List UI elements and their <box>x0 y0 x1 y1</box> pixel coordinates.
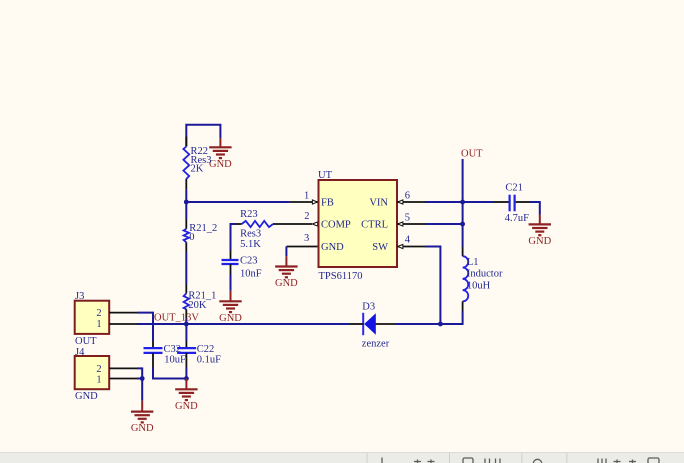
ground GND3 (pin3) <box>275 256 298 289</box>
svg-text:4.7uF: 4.7uF <box>505 213 529 224</box>
svg-text:10uH: 10uH <box>467 281 491 292</box>
wire: R22 bottom to node FB <box>185 190 187 202</box>
svg-text:GND: GND <box>175 401 198 412</box>
wire: OUT vertical <box>462 159 464 247</box>
resistor R21_2 <box>184 223 218 243</box>
wire: pin5 to OUT vertical <box>425 223 463 225</box>
svg-text:2: 2 <box>96 308 101 319</box>
svg-text:GND: GND <box>275 278 298 289</box>
wire: L1 bottom corner to diode node <box>440 311 462 324</box>
wire: R23/C23 branch <box>231 224 242 260</box>
svg-text:COMP: COMP <box>321 220 351 231</box>
capacitor C22 <box>177 344 221 365</box>
wire: C22 bottom to rail node <box>185 353 187 379</box>
svg-text:R23: R23 <box>240 209 258 220</box>
svg-text:J4: J4 <box>75 347 85 358</box>
capacitor C32 <box>144 344 186 365</box>
svg-text:C22: C22 <box>197 344 215 355</box>
resistor R23 <box>240 209 273 250</box>
svg-text:D3: D3 <box>362 302 375 313</box>
wire: pin4 right and down to diode node <box>425 247 440 325</box>
ground GND1 (top, R22) <box>209 138 232 170</box>
svg-text:GND: GND <box>75 391 98 402</box>
connector J3 <box>75 291 110 347</box>
svg-text:VIN: VIN <box>369 198 388 209</box>
svg-text:1: 1 <box>96 374 101 385</box>
svg-text:Inductor: Inductor <box>467 269 503 280</box>
capacitor C23 <box>222 256 262 280</box>
wire: node to pin1 FB <box>186 201 289 203</box>
node: J4 junction <box>140 376 145 381</box>
pin 2 of J4 <box>109 367 137 369</box>
wire: J4 node down to GND6 <box>141 379 143 401</box>
node: OUT_13V/R21_1 junction <box>184 322 189 327</box>
svg-text:GND: GND <box>528 236 551 247</box>
svg-text:3: 3 <box>304 233 309 244</box>
svg-text:J3: J3 <box>75 291 84 302</box>
svg-text:CTRL: CTRL <box>361 220 388 231</box>
svg-text:SW: SW <box>372 242 388 253</box>
svg-text:4: 4 <box>405 234 411 245</box>
pin 4 SW of UT <box>397 234 425 248</box>
wire: C22 branch from OUT_13V node <box>185 324 187 348</box>
svg-text:1: 1 <box>96 319 101 330</box>
svg-text:0.1uF: 0.1uF <box>197 355 221 366</box>
wire: R23 to pin2 COMP <box>273 223 312 225</box>
svg-text:5.1K: 5.1K <box>240 239 261 250</box>
wire: diode cathode to node <box>376 323 441 325</box>
node: OUT/pin6 junction <box>460 200 465 205</box>
ground GND6 (J4) <box>131 401 154 434</box>
svg-text:GND: GND <box>219 313 242 324</box>
svg-text:2K: 2K <box>191 164 204 175</box>
wire: C21 to GND4 <box>516 202 540 215</box>
ground GND5 (rail) <box>175 379 198 412</box>
svg-text:UT: UT <box>318 170 333 181</box>
wire: OUT_13V line from J3 to diode <box>137 323 364 325</box>
node: FB junction <box>184 200 189 205</box>
svg-text:2: 2 <box>96 364 101 375</box>
svg-text:2: 2 <box>304 211 309 222</box>
svg-text:6: 6 <box>405 191 410 202</box>
svg-text:GND: GND <box>321 242 344 253</box>
pin 2 of J3 <box>109 312 137 314</box>
svg-text:OUT_13V: OUT_13V <box>154 313 199 324</box>
svg-text:FB: FB <box>321 198 334 209</box>
svg-text:C23: C23 <box>240 256 258 267</box>
svg-text:GND: GND <box>131 423 154 434</box>
status bar <box>0 452 684 463</box>
wire: R21_1 to OUT_13V node <box>185 309 187 324</box>
resistor R21_1 <box>184 291 217 311</box>
wire: J4 pin2 to pin1 node <box>137 368 142 378</box>
wire: pin6 line to C21 <box>463 201 509 203</box>
inductor L1 <box>463 247 503 311</box>
svg-text:5: 5 <box>405 212 410 223</box>
wire: C23 to GND2 <box>230 264 232 291</box>
wire: C32 bottom to rail <box>153 353 186 379</box>
node: rail/GND junction <box>184 376 189 381</box>
ground GND4 (C21) <box>528 215 551 247</box>
pin 5 CTRL of UT <box>397 212 425 226</box>
IC UT TPS61170 body <box>318 170 397 282</box>
node: diode/SW/L1 junction <box>438 322 443 327</box>
ground GND2 (C23) <box>219 291 242 324</box>
node: OUT/pin5 junction <box>460 222 465 227</box>
capacitor C21 <box>505 182 529 223</box>
svg-text:zenzer: zenzer <box>362 339 390 350</box>
svg-text:Res3: Res3 <box>240 229 261 240</box>
svg-text:C21: C21 <box>505 182 523 193</box>
svg-text:TPS61170: TPS61170 <box>319 271 363 282</box>
svg-text:10uF: 10uF <box>164 355 186 366</box>
resistor R22 <box>183 146 211 190</box>
connector J4 <box>75 347 110 402</box>
wire: pin6 to OUT node <box>425 201 463 203</box>
pin 1 of J3 <box>109 323 137 325</box>
svg-text:OUT: OUT <box>75 336 97 347</box>
diode D3 <box>362 302 390 350</box>
svg-text:GND: GND <box>209 159 232 170</box>
wire: J3 pin2 down through C32 <box>137 313 153 349</box>
pin 1 FB of UT <box>289 191 319 205</box>
svg-text:1: 1 <box>304 191 309 202</box>
svg-text:10nF: 10nF <box>240 268 262 279</box>
wire: R21_2 to R21_1 <box>185 242 187 293</box>
pin 6 VIN of UT <box>397 191 425 205</box>
svg-text:OUT: OUT <box>461 149 483 160</box>
pin 2 COMP arrow <box>304 211 317 226</box>
wire: R22 top loop <box>186 125 220 147</box>
svg-text:0: 0 <box>189 232 194 243</box>
wire: pin3 down to GND3 <box>285 247 287 257</box>
svg-text:20K: 20K <box>188 300 207 311</box>
pin 3 GND of UT <box>286 233 318 247</box>
wire: node FB down to R21_2 <box>185 202 187 229</box>
pin 1 of J4 <box>109 378 137 380</box>
svg-text:L1: L1 <box>467 257 479 268</box>
